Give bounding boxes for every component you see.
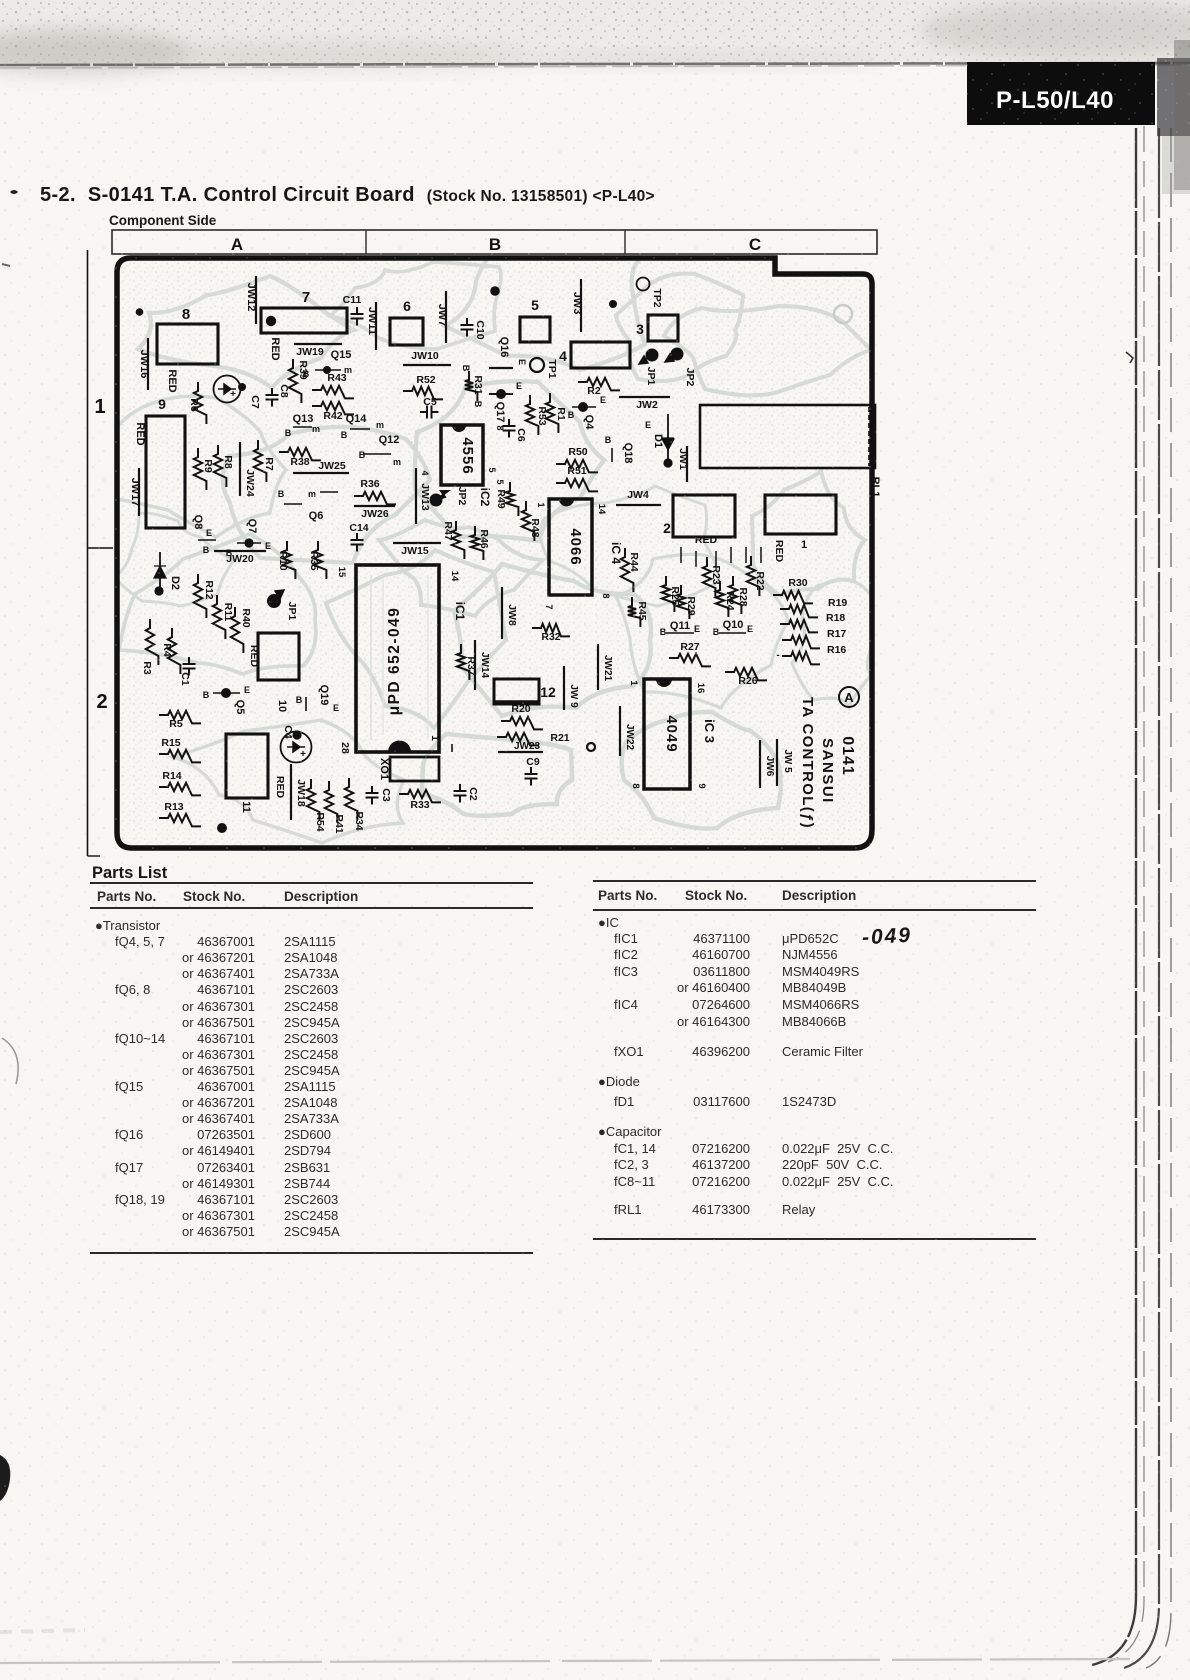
svg-text:R18: R18 <box>826 612 845 624</box>
svg-text:TP2: TP2 <box>651 288 663 307</box>
svg-text:JW13: JW13 <box>419 483 431 511</box>
svg-text:C1: C1 <box>179 672 191 686</box>
svg-text:JW2: JW2 <box>636 399 658 411</box>
svg-text:JW12: JW12 <box>245 283 257 312</box>
svg-text:R40: R40 <box>240 608 252 627</box>
capacitor C10 <box>461 318 487 340</box>
capacitor C4 <box>281 725 312 762</box>
page edge line 4 <box>1146 128 1171 1668</box>
svg-text:JW4: JW4 <box>627 489 649 501</box>
svg-text:1: 1 <box>94 396 105 418</box>
resistor R15 <box>159 737 201 762</box>
svg-text:JW10: JW10 <box>411 350 439 362</box>
label iC3 <box>702 719 717 743</box>
label 16 (IC3 pin) <box>695 683 706 694</box>
svg-text:Q15: Q15 <box>331 349 352 361</box>
resistor R39 <box>289 359 309 403</box>
label 1 (IC3 pin) <box>628 680 639 686</box>
marker A <box>839 687 859 707</box>
grid header box <box>112 230 877 254</box>
resistor R2 <box>578 378 620 397</box>
pad dot <box>217 823 227 833</box>
svg-text:R14: R14 <box>162 770 181 782</box>
capacitor C6 <box>503 419 528 442</box>
svg-text:JW25: JW25 <box>318 460 346 472</box>
svg-text:R31: R31 <box>472 375 484 394</box>
resistor R36 <box>354 478 396 504</box>
jumper JW23 <box>498 741 543 752</box>
svg-text:JW22: JW22 <box>624 724 635 751</box>
svg-text:15: 15 <box>336 567 347 578</box>
svg-text:6: 6 <box>403 298 411 314</box>
connector 4 <box>559 342 630 368</box>
component side label <box>109 213 216 228</box>
copper trace texture <box>117 258 872 848</box>
svg-text:C3: C3 <box>380 788 392 802</box>
svg-text:JW19: JW19 <box>296 346 324 358</box>
svg-text:R38: R38 <box>290 456 309 468</box>
svg-text:E: E <box>516 381 522 391</box>
jumper JW19 <box>294 344 342 358</box>
svg-text:JW23: JW23 <box>514 741 541 752</box>
jumper JW26 <box>354 506 395 520</box>
svg-text:5: 5 <box>487 467 497 472</box>
transistor Q15 <box>303 349 352 379</box>
svg-text:C4: C4 <box>282 725 294 739</box>
resistor R40 <box>231 607 252 653</box>
resistor R53 <box>526 395 548 435</box>
svg-text:14: 14 <box>596 504 607 515</box>
svg-text:2: 2 <box>663 520 671 536</box>
svg-text:R45: R45 <box>636 601 648 620</box>
resistor R3 <box>141 619 158 675</box>
right edge scan smear <box>1157 58 1190 136</box>
page edge line 2 <box>1108 126 1144 1662</box>
jumper JW9 <box>564 666 579 710</box>
capacitor C1 <box>179 657 196 686</box>
connector 11 <box>226 734 268 813</box>
svg-text:JW1: JW1 <box>677 448 689 470</box>
jumper JW1 <box>663 446 689 482</box>
svg-text:B: B <box>489 235 501 254</box>
svg-text:+: + <box>230 389 236 400</box>
svg-text:JW 5: JW 5 <box>782 749 793 773</box>
svg-text:C9: C9 <box>526 756 540 768</box>
label RED (conn 1) <box>773 540 785 563</box>
label RED (conn 11) <box>274 776 286 799</box>
svg-text:JW11: JW11 <box>366 307 378 335</box>
svg-text:R33: R33 <box>410 799 429 811</box>
jumper JW5 <box>777 739 793 786</box>
svg-text:R2: R2 <box>587 385 601 397</box>
microcontroller IC1 uPD652-049 <box>356 565 439 752</box>
svg-text:E: E <box>600 395 606 405</box>
connector 2 <box>663 495 735 537</box>
left margin curve mark <box>2 1038 18 1084</box>
resistor R29 <box>677 585 697 619</box>
svg-text:R39: R39 <box>297 360 309 379</box>
transistor Q17 <box>489 381 522 431</box>
svg-text:JW16: JW16 <box>138 350 150 379</box>
connector 5 <box>520 297 550 342</box>
jumper plug JP1 (lower) <box>267 590 298 620</box>
transistor Q16 <box>489 337 527 368</box>
label iC2 <box>478 488 492 507</box>
resistor R27 <box>669 641 711 666</box>
svg-text:iC 4: iC 4 <box>609 542 623 564</box>
svg-text:9: 9 <box>158 396 166 412</box>
svg-text:JW17: JW17 <box>129 478 141 507</box>
jumper JW8 <box>502 587 518 639</box>
jumper JW11 <box>366 302 378 350</box>
top scan noise band <box>0 0 1190 130</box>
svg-text:R7: R7 <box>263 457 275 471</box>
svg-text:B: B <box>473 401 483 408</box>
resistor R28 <box>729 576 749 614</box>
resistor R13 <box>159 801 201 826</box>
jumper JW20 <box>214 551 266 565</box>
svg-text:C14: C14 <box>349 522 368 534</box>
page edge line 1 <box>1092 128 1136 1665</box>
resistor R34 <box>345 778 365 831</box>
jumper JW2 <box>619 397 670 411</box>
transistor Q18 <box>605 435 634 463</box>
svg-text:R34: R34 <box>353 811 365 830</box>
resistor R21 <box>497 732 570 745</box>
svg-text:R13: R13 <box>164 801 183 813</box>
jumper JW4 <box>616 489 661 505</box>
resistor R37 <box>457 644 477 680</box>
capacitor C14 <box>349 522 368 552</box>
svg-text:JW20: JW20 <box>226 553 254 565</box>
transistor Q4 <box>568 395 606 430</box>
test point TP2 <box>637 278 664 308</box>
svg-text:TP1: TP1 <box>546 359 558 378</box>
resistor R6 <box>188 382 206 424</box>
pad ring small <box>587 743 595 751</box>
board id TA CONTROL(f) <box>799 697 816 829</box>
capacitor C11 <box>343 294 364 326</box>
connector 8 <box>157 306 218 364</box>
transistor Q6 <box>278 489 338 522</box>
resistor R19 <box>780 597 847 617</box>
svg-text:R4: R4 <box>161 643 173 657</box>
svg-text:RED: RED <box>695 534 718 546</box>
svg-text:Q11: Q11 <box>670 620 690 632</box>
svg-text:R47: R47 <box>442 521 454 540</box>
resistor R7 <box>254 440 275 482</box>
label 8 (IC3 pin) <box>630 783 641 788</box>
label 7 (IC4 pin) <box>544 604 554 609</box>
resistor R11 <box>213 595 234 639</box>
svg-text:R19: R19 <box>828 597 847 609</box>
svg-text:12: 12 <box>540 684 556 700</box>
label 8 (IC4 pin) <box>601 593 611 598</box>
svg-text:R30: R30 <box>788 577 807 589</box>
jumper plug JP2 <box>665 348 696 387</box>
svg-text:R1: R1 <box>555 407 567 421</box>
small mark right margin <box>1126 352 1133 363</box>
op-amp U IC2 4556 <box>441 425 483 485</box>
label RED (conn 9) <box>134 422 146 445</box>
svg-text:Q4: Q4 <box>583 415 595 431</box>
svg-text:JW24: JW24 <box>244 469 256 497</box>
svg-text:A: A <box>231 235 243 254</box>
svg-text:R8: R8 <box>222 455 234 469</box>
resistor R44 <box>621 548 640 592</box>
svg-text:R43: R43 <box>327 372 346 384</box>
svg-text:C: C <box>749 235 761 254</box>
jumper JW17 <box>129 468 141 516</box>
pin mark (IC1) <box>451 744 453 752</box>
svg-text:R17: R17 <box>827 628 846 640</box>
capacitor C8 <box>266 384 291 406</box>
connector pins <box>681 547 761 567</box>
svg-text:R53: R53 <box>536 406 548 425</box>
svg-text:5: 5 <box>495 479 505 484</box>
left table header <box>97 889 156 904</box>
jumper JW3 <box>571 279 583 332</box>
pad dot <box>609 300 617 308</box>
svg-text:R15: R15 <box>161 737 180 749</box>
resistor R20 <box>501 703 543 729</box>
svg-text:D1: D1 <box>652 434 664 448</box>
label 9 (IC3 pin) <box>696 783 707 788</box>
svg-text:R6: R6 <box>188 398 200 412</box>
connector 12 <box>494 679 556 704</box>
svg-text:C10: C10 <box>474 320 486 339</box>
svg-text:SANSUI: SANSUI <box>819 738 836 804</box>
label iC4 <box>609 542 623 564</box>
pad dot <box>490 286 500 296</box>
svg-text:B: B <box>296 695 303 705</box>
resistor R24 <box>716 581 736 617</box>
diode D1 <box>645 414 674 462</box>
diode D2 <box>154 552 181 596</box>
svg-text:R16: R16 <box>827 644 846 656</box>
jumper JW21 <box>598 644 613 690</box>
resistor R1 <box>546 393 567 433</box>
jumper plug JP1 <box>639 349 659 386</box>
svg-text:E: E <box>206 528 212 538</box>
svg-text:4049: 4049 <box>663 715 680 752</box>
resistor R46 <box>471 526 490 560</box>
jumper JW16 <box>138 338 150 390</box>
svg-text:9: 9 <box>696 783 707 788</box>
resistor R31 <box>461 365 484 408</box>
resistor R41 <box>325 781 345 834</box>
left margin blob <box>0 1455 10 1501</box>
board id SANSUI <box>819 738 836 804</box>
label 5 (IC2 pin) <box>487 467 497 472</box>
resistor R52 <box>403 374 443 399</box>
svg-text:RED: RED <box>274 776 286 799</box>
label 14 (IC4 pin) <box>596 504 607 515</box>
frame row-label column line <box>88 250 114 856</box>
svg-text:B: B <box>605 435 612 445</box>
svg-text:Q10: Q10 <box>723 619 744 631</box>
svg-text:16: 16 <box>695 683 706 694</box>
svg-text:14: 14 <box>449 571 460 582</box>
svg-text:B: B <box>278 489 285 499</box>
svg-text:JW26: JW26 <box>361 508 389 520</box>
svg-text:-: - <box>776 650 779 661</box>
svg-text:Q13: Q13 <box>293 413 314 425</box>
transistor Q10 <box>713 619 753 637</box>
label RED (conn 2) <box>695 534 718 546</box>
resistor R54 <box>307 779 326 832</box>
svg-text:2: 2 <box>96 691 107 713</box>
jumper JW18 <box>291 764 307 820</box>
resistor R26 <box>725 668 767 687</box>
jumper JW24 <box>240 442 256 497</box>
resistor R38 <box>279 448 321 468</box>
jumper JW15 <box>393 543 441 557</box>
page edge line 3 <box>1124 128 1159 1668</box>
resistor R42 <box>312 402 354 422</box>
svg-text:m: m <box>393 457 401 467</box>
svg-text:C7: C7 <box>249 395 261 409</box>
capacitor C3 <box>366 786 393 805</box>
Parts List heading <box>92 864 167 883</box>
scan fold line <box>0 63 1190 65</box>
svg-text:R46: R46 <box>478 529 490 548</box>
svg-text:R27: R27 <box>680 641 699 653</box>
svg-text:4: 4 <box>420 470 430 475</box>
svg-text:JW6: JW6 <box>764 756 775 777</box>
svg-text:R28: R28 <box>737 587 749 606</box>
transistor Q5 <box>203 685 250 714</box>
svg-text:B: B <box>359 450 366 460</box>
svg-text:8: 8 <box>182 306 190 323</box>
svg-text:JP2: JP2 <box>684 368 696 387</box>
connector 1 <box>765 495 836 551</box>
connector RED (middle) <box>248 633 299 680</box>
svg-text:JW14: JW14 <box>479 652 490 679</box>
left table rules <box>90 882 533 884</box>
svg-text:RED: RED <box>248 645 260 668</box>
svg-text:28: 28 <box>339 742 351 754</box>
svg-text:JW7: JW7 <box>436 304 448 327</box>
svg-text:μPD 652-049: μPD 652-049 <box>386 607 403 716</box>
svg-text:4556: 4556 <box>459 437 476 474</box>
svg-text:JP1: JP1 <box>645 367 657 386</box>
svg-text:R22: R22 <box>754 571 766 590</box>
label 10 <box>276 700 288 712</box>
resistor R47 <box>442 521 464 559</box>
svg-text:R52: R52 <box>416 374 435 386</box>
svg-text:B: B <box>461 365 471 372</box>
jumper JW10 <box>403 350 451 365</box>
transistor Q7 <box>226 519 271 558</box>
svg-text:B: B <box>341 430 348 440</box>
svg-text:m: m <box>312 424 320 434</box>
svg-text:10: 10 <box>276 700 288 712</box>
capacitor C2 <box>454 784 480 803</box>
label iC1 <box>453 602 467 621</box>
svg-text:R54: R54 <box>314 812 326 831</box>
resistor R22 <box>747 556 766 596</box>
svg-text:JW21: JW21 <box>602 655 613 682</box>
svg-text:1: 1 <box>628 680 639 686</box>
bottom faint page edge <box>0 1659 1130 1663</box>
board id 0141 <box>839 736 856 776</box>
model number box P-L50/L40 <box>967 62 1155 125</box>
resistor R25 <box>662 576 681 612</box>
svg-text:R3: R3 <box>141 661 153 675</box>
svg-text:+: + <box>300 749 306 760</box>
resistor R43 <box>312 372 354 398</box>
svg-text:11: 11 <box>240 801 252 813</box>
pad ring <box>834 305 852 323</box>
svg-text:E: E <box>747 624 753 634</box>
svg-text:RED: RED <box>134 422 146 445</box>
resistor R35 <box>308 541 326 579</box>
svg-text:iC1: iC1 <box>453 602 467 621</box>
resistor R33 <box>399 790 441 811</box>
resistor R49 <box>495 479 518 516</box>
svg-text:B: B <box>713 627 720 637</box>
resistor R32 <box>532 624 570 643</box>
svg-text:R10: R10 <box>277 551 289 570</box>
crystal XO1 <box>378 757 439 781</box>
connector 9 <box>146 396 185 528</box>
svg-text:R21: R21 <box>550 732 569 744</box>
row label 2 <box>96 691 107 713</box>
transistor Q12 <box>359 434 401 467</box>
svg-text:R48: R48 <box>529 518 541 537</box>
svg-text:RL1: RL1 <box>869 477 881 498</box>
svg-text:Q14: Q14 <box>346 413 368 425</box>
label JP2 (near IC2) <box>430 487 469 507</box>
svg-text:R42: R42 <box>323 410 342 422</box>
label 1 (IC1 pin) <box>429 735 440 741</box>
resistor R23 <box>703 557 722 597</box>
jumper JW13 <box>416 468 431 524</box>
svg-text:B: B <box>660 627 667 637</box>
svg-text:JP2: JP2 <box>456 487 468 506</box>
svg-text:D2: D2 <box>169 576 181 590</box>
svg-text:C2: C2 <box>467 787 479 801</box>
svg-text:R50: R50 <box>568 446 587 458</box>
svg-text:Q17: Q17 <box>494 402 506 423</box>
svg-text:B: B <box>203 690 210 700</box>
svg-text:Q6: Q6 <box>309 510 324 522</box>
svg-text:XO1: XO1 <box>378 758 390 780</box>
svg-text:C11: C11 <box>343 294 362 306</box>
svg-text:E: E <box>645 420 651 430</box>
jumper JW14 <box>475 640 490 690</box>
svg-text:R44: R44 <box>628 552 640 571</box>
resistor R4 <box>161 628 180 674</box>
jumper JW25 <box>293 460 349 473</box>
svg-text:B: B <box>568 410 575 420</box>
test point TP1 <box>530 358 558 379</box>
svg-text:Q5: Q5 <box>234 700 246 715</box>
svg-text:JW8: JW8 <box>506 604 518 626</box>
svg-text:8: 8 <box>601 593 611 598</box>
svg-text:Q18: Q18 <box>622 443 634 464</box>
right table header <box>598 888 657 903</box>
resistor R30 <box>773 577 813 603</box>
svg-text:RED: RED <box>269 337 281 360</box>
svg-text:R20: R20 <box>511 703 530 715</box>
svg-text:R41: R41 <box>333 814 345 833</box>
svg-text:E: E <box>517 359 527 365</box>
jumper JW7 <box>436 291 448 343</box>
svg-text:Q8: Q8 <box>192 515 204 530</box>
svg-text:R49: R49 <box>495 489 507 508</box>
